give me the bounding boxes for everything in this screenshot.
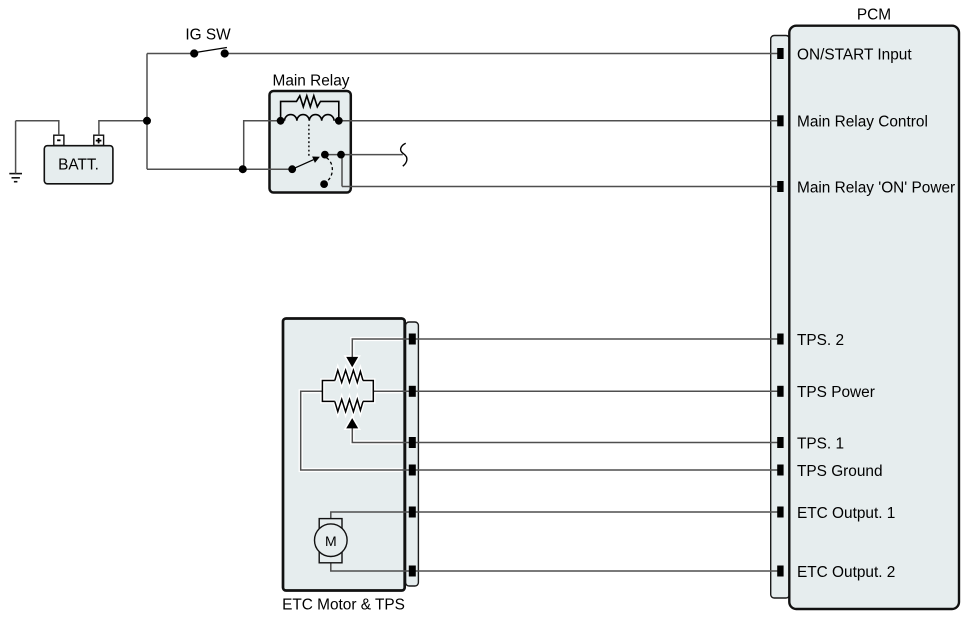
relay coil L1 [285,115,335,121]
wire TPS ground row [301,391,780,470]
pin Main Relay Control [777,115,783,126]
relay contact dots [288,165,296,173]
svg-text:TPS. 2: TPS. 2 [797,332,844,349]
TPS wiper arrow down [346,357,358,367]
battery negative terminal [54,135,64,145]
wire node A to relay common [147,168,292,170]
wire TPS 2 row [352,339,780,357]
wire to IG SW [147,53,194,55]
switch IG SW [190,49,198,57]
svg-text:M: M [325,533,337,549]
svg-text:IG SW: IG SW [185,27,231,44]
ground [9,174,22,182]
pin ETC Output 1 PCM [777,507,783,518]
wire TPS 1 row [352,428,780,443]
wire relay coil right to PCM Main Relay Control [339,120,780,122]
wire break squiggle [401,143,407,166]
svg-text:ETC Motor & TPS: ETC Motor & TPS [282,597,405,614]
wire ground vertical [15,121,17,174]
wire relay output down leg [341,155,343,187]
wire ETC output 2 row [331,563,780,571]
wire TPS Power row [373,390,780,392]
relay switch travel dashed arc [327,158,333,181]
pin ON/START Input [777,48,783,59]
pin ETC Output 1 ETC [409,507,416,518]
wire node A vertical [146,54,148,170]
battery positive terminal [94,135,104,145]
svg-text:BATT.: BATT. [58,156,99,173]
white casing under TPS network wires [301,339,402,470]
pin TPS Ground ETC [409,465,416,476]
svg-text:ETC Output. 2: ETC Output. 2 [797,564,895,581]
pin TPS 1 PCM [777,437,783,448]
wire ground to battery minus [16,121,59,135]
resistor R1 (TPS upper) [335,370,363,382]
relay resistor [281,96,339,121]
svg-text:TPS. 1: TPS. 1 [797,435,844,452]
svg-text:PCM: PCM [857,7,891,24]
main relay box [270,91,351,193]
ETC connector strip [406,322,419,586]
svg-text:Main Relay 'ON' Power: Main Relay 'ON' Power [797,179,955,196]
node B junction [239,165,247,173]
svg-text:ON/START Input: ON/START Input [797,46,912,63]
wire relay NO contact to break [325,154,403,156]
pin ETC Output 2 ETC [409,566,416,577]
TPS wiper arrow up [346,418,358,428]
battery box [44,146,113,184]
svg-text:Main Relay: Main Relay [273,72,350,89]
svg-text:TPS Ground: TPS Ground [797,463,883,480]
pin TPS Power PCM [777,386,783,397]
wire battery plus to node A [99,121,147,135]
pin TPS Power ETC [409,386,416,397]
svg-text:TPS Power: TPS Power [797,384,875,401]
TPS resistor network rectangle [322,381,373,402]
svg-text:Main Relay Control: Main Relay Control [797,114,928,131]
relay coil terminal dots [277,117,285,125]
node A junction [143,117,151,125]
PCM box U1 [789,26,959,609]
pin TPS Ground PCM [777,465,783,476]
pin TPS 2 ETC [409,334,416,345]
pin TPS 2 PCM [777,334,783,345]
wire node B to relay coil left [243,121,281,169]
PCM connector strip [771,36,790,599]
pin ETC Output 2 PCM [777,566,783,577]
svg-text:ETC Output. 1: ETC Output. 1 [797,505,895,522]
wire IG SW to PCM ON/START [225,53,780,55]
pin TPS 1 ETC [409,437,416,448]
relay mechanical link dotted [308,125,310,158]
wire relay output to PCM Main Relay ON Power [342,186,780,188]
motor M1 frame [319,519,342,563]
pin Main Relay ON Power [777,181,783,192]
ETC Motor & TPS box [283,319,405,591]
motor M1 body [315,524,348,557]
wire ETC output 1 row [331,512,780,519]
resistor R2 (TPS lower) [335,399,363,411]
relay switch blade with arrow [292,160,313,170]
